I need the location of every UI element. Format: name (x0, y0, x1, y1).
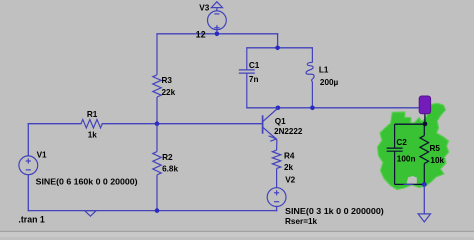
resistor R3 (153, 34, 161, 124)
inductor L1 (306, 48, 314, 108)
svg-text:2k: 2k (284, 163, 294, 172)
svg-text:7n: 7n (249, 75, 259, 84)
wire V1 bottom lead (27, 175, 29, 211)
wire rail drop to tank top (277, 34, 279, 48)
wire base rail left (V1 to R1) (28, 123, 81, 125)
node bottom rail dot (R2) (155, 208, 160, 213)
resistor R2 (153, 124, 161, 211)
voltage source V3 (208, 8, 227, 34)
svg-text:R1: R1 (87, 110, 98, 119)
svg-text:C2: C2 (396, 138, 407, 147)
wire to right ground (423, 184, 425, 214)
wire tank top (247, 47, 313, 49)
ground (bottom rail) (85, 211, 97, 217)
svg-text:R5: R5 (430, 144, 441, 153)
svg-text:1k: 1k (88, 131, 98, 140)
svg-text:R3: R3 (162, 76, 173, 85)
svg-text:Rser=1k: Rser=1k (285, 217, 318, 226)
wire base rail right (R1 to Q1 base) (102, 123, 262, 125)
svg-text:C1: C1 (249, 61, 260, 70)
node tank bottom junction dot (L1) (310, 106, 315, 111)
node V3 junction dot (215, 32, 220, 37)
node tank top junction dot (275, 46, 280, 51)
ground (bottom right) (418, 214, 430, 222)
svg-text:22k: 22k (162, 88, 176, 97)
wire bottom rail (28, 210, 276, 212)
purple marker annotation (419, 96, 430, 114)
green highlight annotation (378, 103, 449, 189)
svg-text:R4: R4 (284, 151, 295, 160)
svg-text:V3: V3 (199, 4, 209, 13)
svg-text:2N2222: 2N2222 (274, 127, 303, 136)
svg-text:12: 12 (196, 29, 206, 39)
wire top rail (157, 33, 278, 35)
wire blue gap segment on RC bottom (404, 183, 414, 185)
capacitor C1 (239, 48, 255, 108)
svg-text:10k: 10k (430, 156, 444, 165)
svg-text:200µ: 200µ (320, 78, 339, 87)
node output bottom dot (422, 182, 427, 187)
svg-text:SINE(0 6 160k 0 0 20000): SINE(0 6 160k 0 0 20000) (36, 178, 138, 187)
transistor Q1 (263, 108, 278, 150)
wires in RC output section (dark over green) (395, 114, 425, 185)
svg-text:L1: L1 (319, 66, 329, 75)
svg-text:V2: V2 (285, 175, 295, 184)
wire V2 bottom stub (276, 207, 278, 211)
voltage source V1 (19, 156, 38, 175)
ground (top, at V3, flipped) (211, 2, 222, 8)
wire tank bottom (247, 107, 421, 109)
resistor R5 (420, 124, 429, 184)
resistor R4 (272, 150, 280, 188)
svg-text:.tran 1: .tran 1 (18, 215, 45, 225)
status bar divider (0, 231, 474, 232)
resistor R1 (81, 120, 102, 128)
voltage source V2 (267, 188, 286, 207)
svg-text:Q1: Q1 (275, 117, 286, 126)
node base junction dot (155, 121, 160, 126)
svg-text:SINE(0 3 1k 0 0 200000): SINE(0 3 1k 0 0 200000) (285, 207, 384, 216)
wire V1 top lead (27, 124, 29, 156)
svg-text:6.8k: 6.8k (162, 165, 178, 174)
node tank bottom junction dot (collector) (276, 106, 281, 111)
node output top dot (black) (423, 122, 428, 127)
svg-text:R2: R2 (162, 153, 173, 162)
gray notch in highlight (bottom) (407, 176, 417, 184)
svg-text:100n: 100n (397, 155, 416, 164)
capacitor C2 (387, 124, 403, 184)
svg-text:V1: V1 (37, 151, 47, 160)
